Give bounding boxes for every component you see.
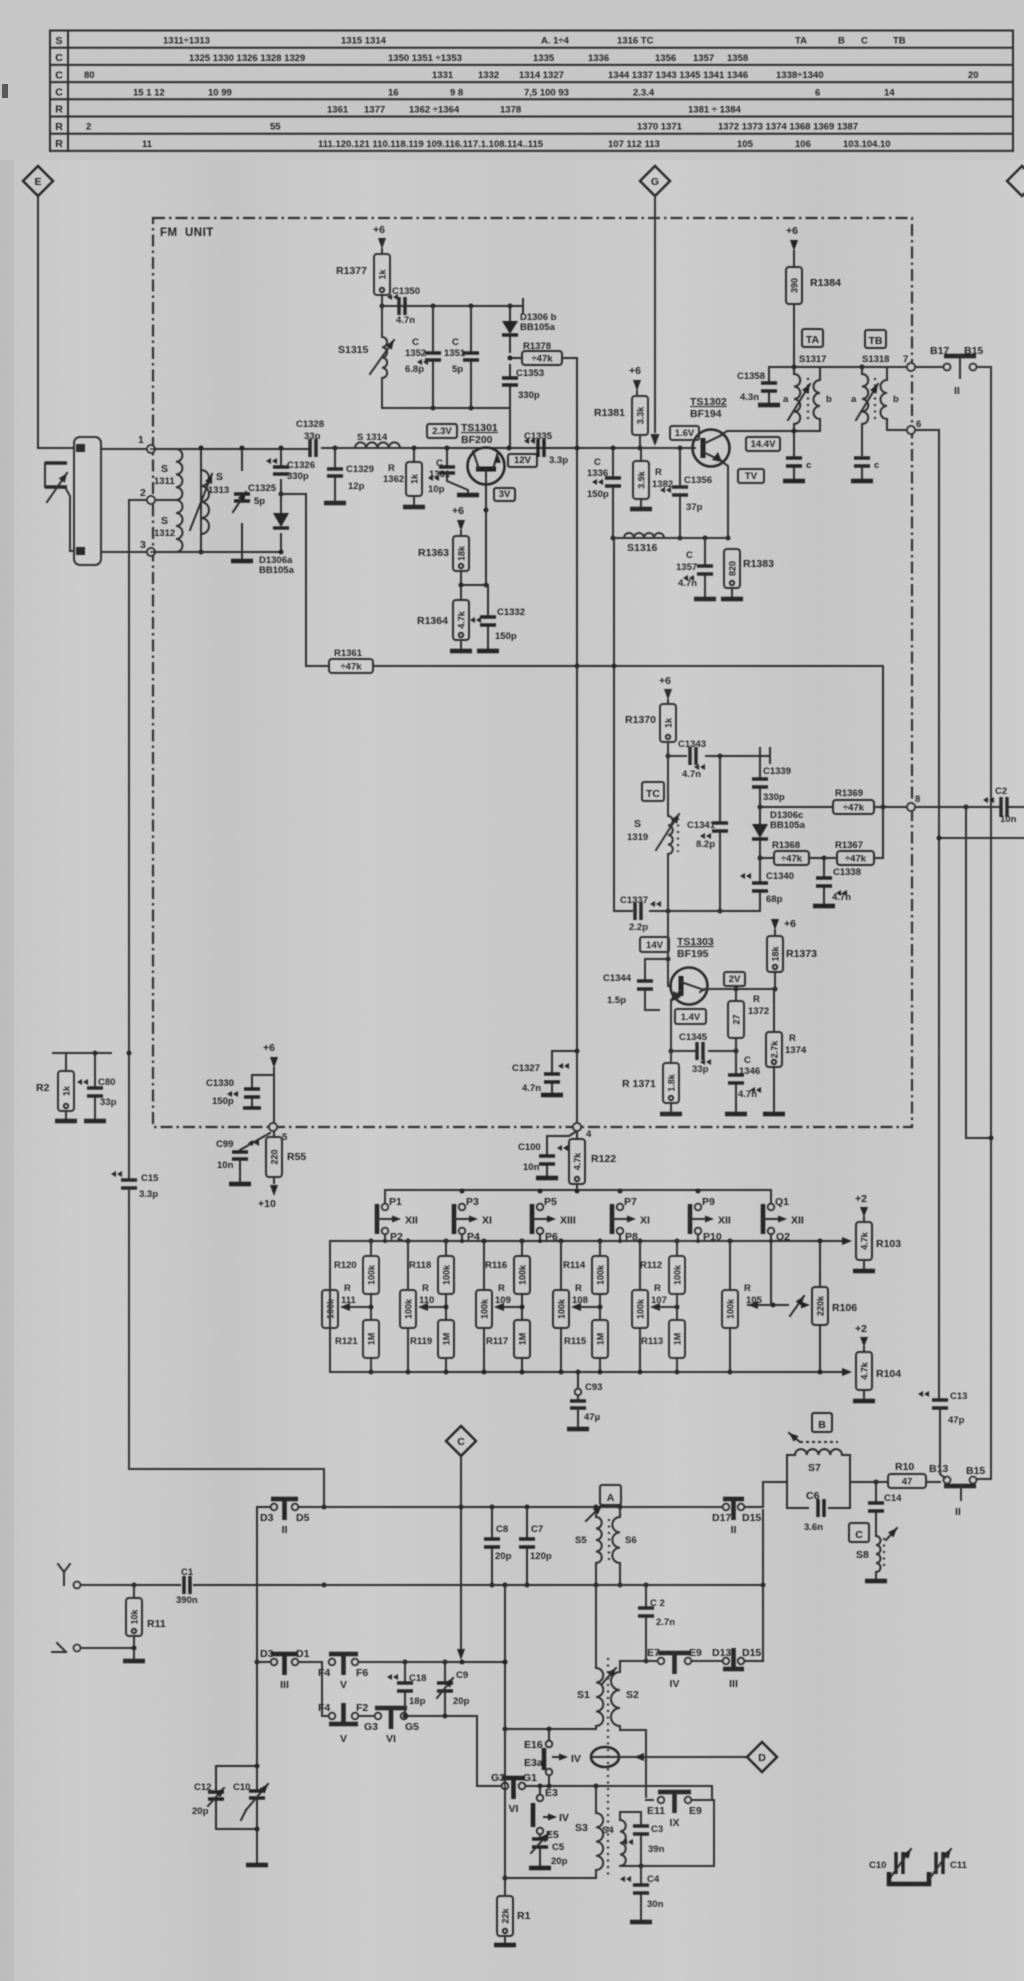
switch E16/E3a (524, 1729, 581, 1786)
wire TS1303 emitter (669, 1000, 674, 1054)
wire S2 to E11 (620, 1730, 646, 1797)
resistor R1382 (630, 448, 673, 509)
resistor R1377 (336, 254, 390, 295)
capacitor C1340 (740, 858, 794, 911)
transistor TS1301 (461, 422, 512, 485)
resistor R11 (123, 1585, 166, 1661)
resistor R120 upper (334, 1241, 379, 1320)
antenna terminal upper (58, 1564, 80, 1588)
wire pin3 (101, 551, 147, 553)
resistor R1 (494, 1896, 531, 1945)
resistor R103 (853, 1222, 901, 1271)
node 2 (140, 487, 155, 504)
capacitor C4 (620, 1866, 664, 1922)
switch E3/E5 (533, 1786, 569, 1841)
resistor R1363 (418, 536, 469, 585)
wire bottom antenna (151, 551, 281, 553)
wire tank bottom (382, 406, 510, 411)
wire from G diamond (651, 196, 660, 446)
switch F4/F2 (318, 1702, 368, 1745)
resistor R1372 (728, 989, 769, 1051)
resistor R1362 (383, 446, 425, 508)
capacitor C1330 (206, 1075, 274, 1108)
wire trimmer bracket (889, 1872, 929, 1884)
supply +2 R104 (855, 1323, 868, 1352)
resistor R1378 (508, 341, 578, 365)
wire C1345 row (671, 1049, 739, 1054)
wire node6 branch (915, 429, 939, 431)
supply +2 R103 (855, 1193, 868, 1222)
connector box (74, 437, 101, 565)
wire G bus to x712 (711, 1786, 713, 1800)
table row 5 values (327, 105, 741, 116)
capacitor C1325 (233, 446, 277, 513)
switch Q1/Q2 (763, 1196, 804, 1243)
wire TS1303 collector (700, 987, 778, 993)
wire S1318 secondary to node 6 (887, 429, 907, 431)
switch D3/D1 lower (257, 1648, 322, 1691)
capacitor C99 (216, 1133, 270, 1184)
coil S3 (575, 1786, 603, 1878)
wire wiper link (650, 1303, 680, 1311)
antenna terminal lower (52, 1643, 137, 1652)
wire pin2 line to D switches (129, 1189, 324, 1504)
switch P5/P6 (532, 1196, 576, 1243)
terminal B13 B15 (926, 1463, 991, 1518)
label B box (812, 1413, 832, 1432)
voltage box 14.4V (746, 437, 780, 451)
label TB box (865, 330, 886, 348)
resistor R1361 (306, 648, 883, 673)
supply +6 C1330 branch (263, 1042, 278, 1124)
capacitor C1327 (512, 1049, 580, 1096)
resistor R1373 (767, 936, 817, 989)
switch P3/P4 (454, 1196, 492, 1243)
wire D1306a to R1361 (281, 494, 306, 666)
supply +6 R1363 (452, 505, 465, 536)
capacitor C20 (983, 786, 1017, 825)
resistor R2 (36, 1051, 132, 1122)
switch E7/E9 (647, 1647, 702, 1690)
table row letters (55, 35, 63, 150)
capacitor C14 (868, 1482, 902, 1536)
wire R1378 down to node 4 (575, 358, 580, 1123)
wire pin1 (101, 448, 147, 450)
wire C1343 row (666, 748, 771, 763)
wire wiper link (340, 1303, 374, 1311)
capacitor C8 (484, 1507, 512, 1588)
connector diamond G (640, 166, 670, 196)
wire R1 column (503, 1585, 508, 1896)
coil S1316 (624, 533, 664, 554)
trimmer C10 bottom right (869, 1849, 911, 1878)
switch F4/F6 (318, 1654, 368, 1691)
node 5 (269, 1123, 288, 1143)
wire main rail (151, 448, 695, 449)
capacitor C1356 (660, 446, 712, 541)
label 3V box (494, 488, 515, 501)
supply +6 R1373 (771, 918, 796, 936)
node 3 (140, 539, 155, 556)
resistor R105 (722, 1241, 763, 1372)
capacitor C1339 (752, 748, 791, 807)
connector diamond D (747, 1742, 777, 1772)
wire upper bottom rail (257, 1505, 722, 1510)
label C box (849, 1523, 869, 1542)
wire R105 wiper (748, 1296, 810, 1316)
capacitor C3 (622, 1812, 665, 1866)
resistor R116 upper (485, 1241, 530, 1320)
capacitor C1352 (405, 306, 441, 408)
wire upper switch row (359, 1660, 508, 1665)
wire P bank lower bus (330, 1237, 852, 1245)
supply +6 R1377 (373, 224, 386, 254)
connector diamond E (23, 166, 53, 196)
resistor R55 (258, 1131, 306, 1210)
wire D1306b column to rail (509, 408, 511, 448)
wire S4 C3 bottom rail (620, 1864, 714, 1869)
wire to S7 box (763, 1482, 787, 1507)
resistor R1367 (824, 840, 883, 865)
resistor R109 (476, 1241, 511, 1372)
supply +6 R1381 (629, 365, 641, 396)
resistor R122 (569, 1139, 616, 1191)
switch D3/D5 (260, 1499, 310, 1536)
capacitor C1 (176, 1567, 198, 1606)
wire TS1301 emitter down (484, 484, 489, 588)
capacitor C1331 (428, 446, 479, 496)
capacitor C12 C10 trimmers (192, 1764, 268, 1866)
voltage box 14V (640, 937, 669, 952)
transformer S5 S6 (575, 1505, 637, 1588)
resistor R110 (400, 1241, 434, 1372)
table row 6 values (86, 122, 858, 133)
wire from E to antenna (38, 196, 74, 448)
wire wiper link (494, 1303, 525, 1311)
transformer S1 S2 (577, 1658, 639, 1875)
wire TS1302 emitter (721, 461, 731, 541)
wire pin2 long vertical (129, 500, 147, 1178)
mixer oval (591, 1747, 619, 1767)
capacitor C7 (519, 1507, 552, 1588)
resistor R1370 (625, 704, 676, 756)
capacitor C100 (518, 1136, 568, 1178)
resistor R1381 (594, 396, 648, 451)
resistor R1368 (758, 840, 827, 865)
voltage box 1.6V (670, 426, 699, 440)
voltage box 2V (724, 972, 745, 986)
transformer S1313 (190, 446, 242, 555)
switch P9/P10 (690, 1196, 731, 1243)
wire TS1302 collector (721, 431, 794, 435)
label A box (600, 1485, 621, 1505)
resistor R111 (322, 1241, 357, 1372)
ground below C1325 (231, 552, 253, 561)
wire R1369 row (758, 805, 1024, 810)
capacitor C1346 (725, 1051, 761, 1114)
wire long vertical x939 (938, 430, 940, 1399)
coil S1311 (154, 449, 182, 500)
node 6 (907, 419, 921, 434)
resistor R1383 (721, 549, 774, 599)
resistor R119 lower (410, 1320, 454, 1372)
resistor R1369 (833, 788, 874, 814)
capacitor C1326 (266, 446, 315, 494)
wire base TS1303 (666, 911, 672, 986)
wire node4 to C100 R122 (547, 1131, 577, 1139)
node 7 (903, 354, 915, 371)
bandfilter S7 C6 box (787, 1433, 850, 1533)
capacitor C15 (111, 1171, 159, 1200)
label TC box (642, 782, 664, 801)
transformer S1317 (783, 354, 832, 431)
resistor R107 (632, 1241, 667, 1372)
wire antenna lower to connector (66, 489, 74, 551)
capacitor C2 (638, 1585, 675, 1664)
supply +6 R1370 (659, 675, 672, 704)
label 12V box (508, 454, 537, 467)
coil S1314 (355, 432, 400, 448)
capacitor c TB (851, 458, 879, 481)
switch E11/E9 (646, 1792, 714, 1829)
antenna dipole symbol (45, 463, 67, 502)
wire Q2 column (770, 1241, 772, 1305)
wire left column x257 (255, 1507, 260, 1766)
wire wiper link (418, 1303, 449, 1311)
wire G1 bus (526, 1784, 712, 1789)
resistor R1371 (622, 1051, 682, 1114)
connector diamond C (446, 1426, 476, 1456)
resistor R112 upper (640, 1241, 685, 1320)
wire node8 lower branch (937, 836, 1024, 841)
switch P7/P8 (612, 1196, 650, 1243)
trimmer C5 (529, 1833, 568, 1868)
capacitor C1358 (737, 367, 780, 405)
wire C diamond down (457, 1456, 465, 1660)
wire S7 to R10 (850, 1480, 888, 1485)
diode D1306a (259, 492, 295, 577)
table row 7 values (142, 139, 891, 150)
wire x966 branch (966, 807, 994, 1141)
resistor R1364 (417, 583, 486, 652)
node 4 (573, 1123, 592, 1140)
capacitor C1351 (444, 306, 479, 408)
capacitor C13 (918, 1391, 967, 1426)
resistor R121 lower (335, 1320, 379, 1372)
capacitor C1344 (603, 959, 668, 1010)
coil S1319 (627, 756, 679, 911)
table row 4 values (133, 87, 895, 98)
resistor R114 upper (563, 1241, 608, 1320)
table row 1 values (163, 36, 906, 47)
node 8 (907, 794, 920, 811)
capacitor C1338 (813, 858, 861, 906)
wire IF bottom rail (613, 536, 728, 541)
capacitor C1336 (587, 446, 621, 541)
potentiometer R106 (812, 1241, 857, 1372)
capacitor C18 (387, 1662, 426, 1719)
transistor TS1302 (690, 396, 730, 467)
wire tank top (380, 295, 524, 313)
resistor R113 lower (641, 1320, 685, 1372)
trimmer C9 (437, 1662, 470, 1719)
capacitor C93 (567, 1372, 602, 1429)
wire S1 bottom (503, 1727, 597, 1732)
wire matrix bottom bus (330, 1241, 852, 1376)
capacitor C1329 (324, 446, 374, 504)
voltage box 1.4V (675, 1009, 706, 1024)
wire P bank top (385, 1189, 771, 1205)
capacitor C1345 (679, 1032, 711, 1075)
switch G3/G1 (491, 1772, 537, 1815)
resistor R118 upper (409, 1241, 454, 1320)
capacitor C1353 (502, 365, 544, 408)
capacitor C1328 (296, 419, 324, 457)
wire G column (477, 1716, 500, 1786)
capacitor C1332 (470, 585, 525, 651)
wire TA TB top rail (769, 365, 907, 370)
FM unit dash-dot frame (153, 218, 912, 1127)
coil S1315 (338, 306, 394, 408)
connector diamond right edge (1007, 166, 1024, 196)
capacitor C1357 (676, 538, 716, 599)
wire E switch row (620, 1510, 763, 1661)
resistor R10 (888, 1461, 926, 1488)
resistor R108 (553, 1241, 588, 1372)
transistor TS1303 (670, 936, 714, 1005)
trimmer C11 bottom right (930, 1849, 968, 1878)
resistor R104 (853, 1352, 901, 1401)
label FM UNIT (160, 227, 214, 239)
coil S4 (602, 1800, 714, 1866)
wire R1367 to top (882, 666, 884, 858)
table grid (50, 31, 1013, 151)
switch G3/G5 (359, 1708, 477, 1745)
wire F column (322, 1662, 328, 1716)
wire oval to D diamond (619, 1753, 747, 1761)
terminal B17 B15 (915, 345, 991, 397)
capacitor C1350 (387, 286, 420, 326)
diode D1306c (752, 807, 806, 858)
supply +6 R1384 (786, 225, 798, 267)
transformer S1318 (851, 354, 899, 455)
capacitor C1335 (524, 431, 568, 466)
capacitor C1337 (620, 895, 661, 933)
resistor R115 lower (564, 1320, 608, 1372)
switch D17/D15 (700, 1499, 763, 1536)
wire antenna bus (81, 1583, 766, 1588)
resistor R1374 (763, 989, 807, 1114)
voltage box TV (738, 469, 764, 483)
switch D13/D15 (712, 1647, 761, 1690)
wire wiper link (571, 1303, 603, 1311)
wire S3 bottom (505, 1877, 596, 1879)
resistor R1384 (786, 267, 841, 367)
wire S1 column (595, 1585, 597, 1729)
resistor R117 lower (486, 1320, 530, 1372)
capacitor c TA (783, 429, 811, 482)
node 1 (138, 434, 155, 453)
switch P1/P2 (377, 1196, 418, 1243)
capacitor C1343 (678, 739, 706, 780)
voltage box 2.3V (427, 424, 457, 438)
wire C13 to B13 (940, 1408, 945, 1478)
table row 3 values (84, 70, 979, 81)
diode D1306b (502, 306, 557, 352)
table row 2 values (189, 53, 748, 64)
label TA box (802, 329, 823, 347)
coil S8 (856, 1528, 897, 1581)
capacitor C80 (77, 1051, 117, 1122)
capacitor C1341 (687, 756, 728, 914)
wire C1337 row (612, 538, 761, 914)
coil S1312 (154, 500, 183, 552)
wire long vertical x991 (990, 367, 992, 1477)
